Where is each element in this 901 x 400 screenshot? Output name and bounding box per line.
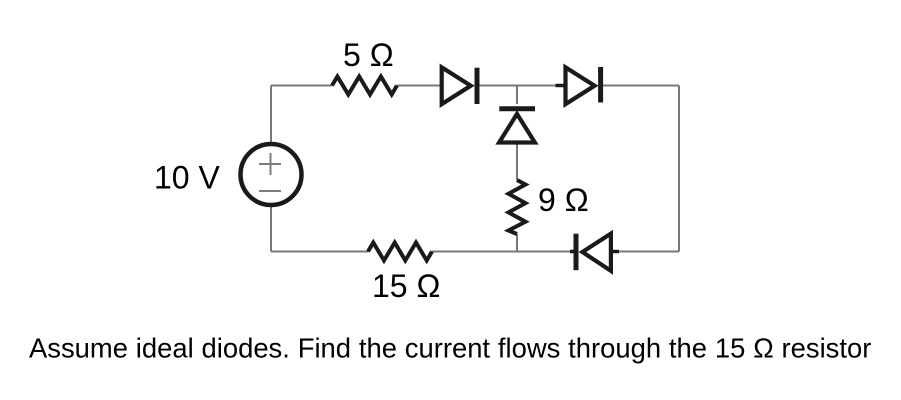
voltage source minus sign: [259, 190, 281, 192]
wire right vertical: [678, 86, 680, 252]
wire left vertical upper: [270, 86, 272, 144]
diode D2 (top right, pointing right): [556, 67, 601, 104]
svg-text:5 Ω: 5 Ω: [343, 37, 394, 73]
diode D3 (middle vertical, pointing up): [499, 109, 535, 143]
wire bottom from source to 15ohm: [271, 251, 368, 253]
diode D1 (top left, pointing right): [442, 67, 477, 104]
wire between 5ohm resistor and diode D1: [397, 85, 441, 87]
wire 15ohm to node B to D4: [432, 251, 572, 253]
wire left vertical lower: [270, 206, 272, 252]
wire 9ohm bottom to node B: [516, 234, 518, 252]
node A vertical drop to D3: [516, 86, 518, 105]
voltage source plus sign: [259, 153, 281, 175]
svg-text:9 Ω: 9 Ω: [538, 182, 589, 218]
wire D4 anode to bottom-right corner: [615, 251, 679, 253]
wire D2 cathode to top-right corner: [603, 85, 679, 87]
resistor R2 15ohm zigzag: [368, 243, 432, 261]
svg-text:15 Ω: 15 Ω: [372, 268, 440, 304]
wire D1 cathode to node A and to D2 anode: [477, 85, 557, 87]
svg-text:Assume ideal diodes. Find the: Assume ideal diodes. Find the current fl…: [29, 333, 871, 364]
diode D4 (bottom, pointing left): [570, 234, 619, 271]
voltage source V1 circle: [241, 144, 302, 205]
wire D3 anode down to 9ohm resistor: [516, 141, 518, 180]
resistor R1 5ohm zigzag: [332, 77, 397, 95]
resistor R3 9ohm vertical zigzag: [509, 180, 526, 234]
svg-text:10 V: 10 V: [154, 160, 220, 196]
wire top-left horizontal: [271, 85, 332, 87]
